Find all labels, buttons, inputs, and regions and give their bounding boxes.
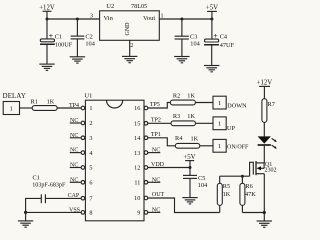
connector J1 box	[3, 102, 19, 115]
svg-text:U2: U2	[106, 3, 114, 10]
capacitor C1 timing 103pF-683pF	[32, 174, 66, 203]
svg-text:C2: C2	[85, 34, 92, 41]
svg-text:1: 1	[218, 100, 221, 107]
LED D1	[258, 136, 277, 148]
svg-text:TP5: TP5	[150, 102, 160, 108]
capacitor C4 47UF	[204, 31, 234, 49]
svg-text:11: 11	[134, 180, 140, 187]
svg-text:NC: NC	[70, 163, 78, 169]
svg-text:C4: C4	[220, 33, 228, 40]
pin numbers left	[89, 105, 92, 216]
svg-text:103pF-683pF: 103pF-683pF	[32, 182, 66, 188]
svg-text:C3: C3	[190, 34, 197, 41]
svg-text:TP1: TP1	[151, 132, 161, 138]
wire	[211, 46, 213, 66]
ground C3	[174, 57, 189, 63]
node junction C2	[76, 18, 79, 21]
wire R6 to ground	[242, 212, 264, 214]
resistor R1 1K	[31, 98, 58, 110]
ground C2	[70, 57, 85, 63]
svg-text:NC: NC	[70, 118, 78, 124]
svg-text:C5: C5	[198, 175, 205, 182]
svg-text:TP2: TP2	[151, 117, 161, 123]
svg-text:6: 6	[89, 180, 92, 187]
wire	[76, 19, 78, 36]
wire	[263, 122, 265, 136]
pin 7 CAP circle	[68, 193, 85, 200]
node junction ground rail	[24, 211, 27, 214]
svg-text:1K: 1K	[223, 191, 231, 198]
ground Q1	[257, 221, 272, 227]
wire	[200, 145, 213, 147]
ground C4	[204, 66, 219, 72]
svg-text:C1: C1	[55, 33, 62, 40]
svg-text:1: 1	[218, 143, 221, 150]
svg-text:4: 4	[89, 150, 92, 157]
wire	[20, 107, 33, 109]
svg-text:+12V: +12V	[257, 80, 273, 87]
connector ON/OFF box	[213, 139, 249, 152]
node junction source-ground	[263, 211, 266, 214]
svg-text:Vout: Vout	[143, 15, 155, 22]
capacitor C2 104	[71, 34, 96, 48]
svg-text:104: 104	[85, 41, 95, 48]
svg-text:OUT: OUT	[152, 192, 165, 198]
node junction C1	[46, 18, 49, 21]
svg-text:1: 1	[218, 121, 221, 128]
ground C5	[182, 198, 197, 204]
svg-text:12: 12	[134, 165, 140, 172]
svg-text:R5: R5	[223, 183, 230, 190]
wire source down	[263, 174, 265, 221]
wire	[76, 39, 78, 57]
svg-text:U1: U1	[84, 93, 92, 100]
svg-text:8: 8	[89, 210, 92, 217]
svg-text:+5V: +5V	[206, 4, 218, 11]
pin 8 VSS circle	[69, 207, 85, 214]
svg-text:R2: R2	[173, 92, 180, 99]
svg-text:100UF: 100UF	[55, 42, 73, 49]
capacitor C1 100UF	[40, 31, 73, 49]
wire	[196, 122, 214, 124]
svg-text:DELAY: DELAY	[3, 93, 26, 100]
svg-text:1: 1	[89, 105, 92, 112]
pin 6 NC	[70, 177, 85, 184]
pin 2 NC	[70, 118, 85, 125]
power +12V left	[39, 5, 55, 19]
svg-text:9: 9	[137, 210, 140, 217]
resistor R6 47K	[240, 176, 256, 212]
pin 4 NC	[70, 148, 85, 155]
pin 9 NC	[144, 207, 160, 214]
pin 16 TP5	[144, 102, 170, 110]
svg-text:UP: UP	[227, 125, 236, 132]
capacitor C5 104	[183, 175, 208, 189]
svg-text:15: 15	[134, 120, 140, 127]
svg-text:13: 13	[134, 150, 140, 157]
svg-text:7: 7	[89, 195, 92, 202]
svg-text:NC: NC	[152, 148, 160, 154]
svg-text:1K: 1K	[187, 92, 195, 99]
svg-text:78L05: 78L05	[131, 3, 147, 10]
wire Vout rail	[159, 18, 212, 20]
svg-text:GND: GND	[125, 22, 131, 36]
svg-text:16: 16	[134, 105, 140, 112]
svg-text:47UF: 47UF	[220, 42, 235, 49]
svg-text:104: 104	[190, 41, 200, 48]
svg-text:NC: NC	[70, 148, 78, 154]
capacitor C3 104	[175, 34, 201, 48]
svg-text:104: 104	[198, 182, 208, 189]
wire ground rail to VSS	[26, 211, 81, 213]
wire	[25, 212, 27, 221]
svg-text:NC: NC	[152, 207, 160, 213]
wire	[181, 19, 183, 36]
svg-text:1K: 1K	[191, 136, 199, 143]
svg-text:NC: NC	[152, 177, 160, 183]
ground C1	[39, 64, 54, 70]
resistor R2 1K	[170, 92, 195, 105]
svg-text:1K: 1K	[47, 98, 55, 105]
pin 15 TP2	[144, 117, 171, 125]
svg-text:R3: R3	[173, 113, 180, 120]
svg-text:DOWN: DOWN	[227, 103, 247, 110]
pin 5 NC	[70, 163, 85, 170]
svg-text:3: 3	[89, 135, 92, 142]
pin numbers right	[134, 105, 140, 216]
svg-text:14: 14	[134, 135, 140, 142]
ground U2	[122, 56, 137, 62]
node junction R6 gate	[241, 175, 244, 178]
resistor R7	[262, 99, 275, 123]
pin 3 NC	[70, 133, 85, 140]
svg-text:+12V: +12V	[39, 5, 55, 12]
node junction VDD	[189, 166, 192, 169]
resistor R5 1K	[217, 176, 230, 212]
svg-text:R6: R6	[245, 183, 252, 190]
IC U1	[84, 93, 144, 221]
ground rail	[18, 221, 33, 227]
svg-text:5: 5	[89, 165, 92, 172]
U2 pin2 wire	[129, 40, 131, 56]
svg-text:NC: NC	[70, 177, 78, 183]
resistor R4 1K	[175, 135, 200, 148]
svg-text:10: 10	[134, 195, 140, 202]
svg-text:1: 1	[10, 105, 13, 112]
svg-text:ON/OFF: ON/OFF	[227, 145, 249, 151]
resistor R3 1K	[171, 113, 196, 126]
pin 1 circle	[81, 106, 85, 110]
wire TP4	[57, 107, 80, 109]
wire top rail 12V	[47, 18, 100, 20]
svg-text:2: 2	[89, 120, 92, 127]
svg-text:1K: 1K	[187, 113, 195, 120]
wire gate rail	[220, 175, 250, 177]
power +5V mid	[183, 154, 195, 175]
power +5V top	[206, 4, 218, 39]
wire	[189, 178, 191, 197]
svg-text:2302: 2302	[265, 167, 277, 173]
node junction +5V	[210, 18, 213, 21]
connector UP box	[213, 117, 236, 132]
connector DOWN box	[213, 96, 247, 109]
svg-text:TP4: TP4	[69, 103, 79, 109]
svg-text:Vin: Vin	[104, 15, 114, 22]
svg-text:3: 3	[90, 13, 93, 19]
node junction C3	[180, 18, 183, 21]
wire	[46, 19, 48, 39]
wire	[195, 102, 213, 104]
svg-text:2: 2	[130, 43, 133, 49]
wire	[181, 39, 183, 56]
pin 14 TP1	[144, 132, 175, 146]
svg-text:47K: 47K	[245, 191, 256, 198]
svg-text:R1: R1	[31, 98, 38, 105]
wire	[263, 145, 265, 163]
svg-text:C1: C1	[33, 174, 40, 181]
svg-text:R4: R4	[175, 135, 183, 142]
pin 10 OUT	[144, 192, 220, 212]
svg-text:NC: NC	[70, 133, 78, 139]
transistor Q1 2302	[250, 161, 277, 176]
pin 13 NC	[144, 148, 160, 155]
pin 12 VDD	[144, 162, 190, 169]
power +12V right	[257, 80, 273, 99]
wire cap left down	[26, 198, 42, 212]
wire	[46, 45, 48, 64]
wire CAP to cap	[45, 197, 80, 199]
regulator U2 78L05	[100, 3, 160, 40]
svg-text:R7: R7	[268, 101, 275, 108]
pin 11 NC	[144, 177, 160, 184]
